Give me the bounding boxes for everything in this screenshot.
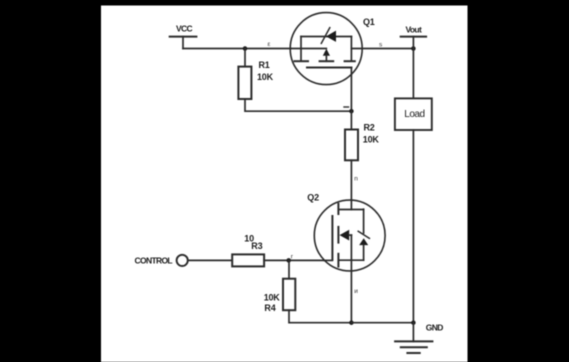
svg-text:10K: 10K [257, 72, 274, 82]
svg-text:10K: 10K [264, 292, 281, 302]
svg-text:R4: R4 [264, 303, 275, 313]
body diode cathode slash [321, 28, 330, 44]
wire Load to ground rail [412, 130, 414, 323]
transistor Q1 (P-channel MOSFET) [290, 13, 362, 85]
bulk arrow of Q1 [323, 49, 330, 56]
wire VCC rail to Q1 source [183, 48, 291, 50]
wire Q2 source to ground rail [350, 271, 352, 323]
wire ground rail [351, 322, 413, 324]
load box [395, 98, 432, 130]
left terminal bar [300, 37, 302, 61]
VCC supply symbol [170, 37, 197, 49]
wire R2 bottom to Q2 drain [350, 160, 352, 200]
source run into arrow [291, 48, 327, 50]
CONTROL terminal [177, 255, 188, 266]
wire R1 top stub [244, 49, 246, 67]
resistor R3 [232, 254, 264, 266]
svg-text:Q1: Q1 [363, 17, 375, 27]
Vout supply symbol [401, 37, 426, 49]
body diode of Q1 [326, 31, 336, 42]
resistor R4 [283, 279, 295, 311]
wire drain rail Q1 to Vout [351, 48, 413, 50]
drain run inside [350, 200, 352, 209]
bulk arrow of Q2 [340, 230, 350, 241]
wire R3 to Q2 gate [264, 259, 324, 261]
node junction Vout [411, 46, 416, 51]
body diode anode wire [363, 245, 365, 260]
wire CONTROL to R3 [188, 259, 232, 261]
channel contact middle [320, 60, 334, 62]
svg-text:Q2: Q2 [307, 192, 319, 202]
top body line [338, 209, 363, 211]
gate plate [307, 67, 351, 69]
wire Vout to Load [412, 49, 414, 99]
svg-text:R1: R1 [259, 60, 270, 70]
resistor R2 [345, 130, 358, 161]
svg-text:и: и [354, 288, 358, 295]
channel segment bottom [337, 254, 339, 267]
right terminal bar [350, 37, 352, 61]
node junction load/ground [411, 320, 416, 325]
top body line [301, 36, 351, 38]
source run from arrow down [350, 235, 352, 271]
ground symbol [395, 323, 432, 353]
wire R2 top stub [350, 111, 352, 129]
node junction Q2 source/ground rail [349, 320, 354, 325]
wire R1 bottom to Q1 gate net [245, 99, 351, 111]
wire Q1 gate drop [350, 68, 352, 112]
svg-text:VCC: VCC [176, 23, 193, 33]
svg-text:ε: ε [268, 41, 271, 48]
transistor Q2 (N-channel MOSFET) [314, 200, 385, 271]
resistor R1 [238, 67, 251, 99]
channel contact right [345, 60, 355, 62]
channel contact left [295, 60, 309, 62]
svg-text:GND: GND [426, 323, 443, 333]
svg-text:Load: Load [404, 109, 424, 120]
node junction gate/R1/R2 [349, 109, 354, 114]
svg-text:10K: 10K [363, 135, 380, 145]
svg-text:CONTROL: CONTROL [135, 256, 173, 266]
channel segment middle [337, 227, 339, 243]
body diode of Q2 [359, 238, 368, 245]
bottom body line [338, 259, 363, 261]
gate bar [331, 216, 333, 260]
gate wire inside [325, 259, 333, 261]
channel segment top [337, 204, 339, 214]
svg-text:Vout: Vout [406, 24, 422, 34]
body diode cathode slash [358, 231, 369, 238]
wire R4 bottom to ground rail [289, 310, 351, 323]
body diode cathode wire [363, 209, 365, 233]
svg-text:R3: R3 [251, 241, 262, 251]
svg-text:R2: R2 [364, 123, 375, 133]
pin label 1 (Q1 gate) [344, 106, 349, 108]
wire R4 top stub [288, 260, 290, 278]
svg-text:n: n [354, 176, 358, 183]
node junction VCC/R1 [243, 46, 248, 51]
white schematic canvas [101, 6, 468, 362]
node junction R3/R4/gate [286, 258, 291, 263]
